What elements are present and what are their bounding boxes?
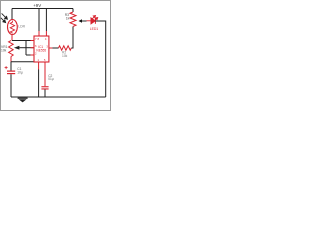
wire pin1 to ground rail xyxy=(38,70,40,98)
resistor R2 xyxy=(59,46,72,50)
LDR LDR1 xyxy=(7,20,17,35)
wire LED to right column xyxy=(95,21,105,97)
capacitor C1 xyxy=(7,71,15,75)
pin 5 stub down (red) xyxy=(44,62,46,86)
wire rail corner down to R3 xyxy=(72,9,74,13)
frame border xyxy=(1,1,111,111)
pin 3 stub right xyxy=(49,47,53,49)
svg-text:NE555: NE555 xyxy=(36,48,46,52)
svg-text:10µ: 10µ xyxy=(17,71,23,75)
wire column to bottom-left pin xyxy=(26,54,34,56)
ground symbol xyxy=(18,98,28,103)
wire VR1 bottom to IC xyxy=(11,61,34,63)
potentiometer VR1 xyxy=(9,41,34,57)
wire down to C1 xyxy=(10,62,12,71)
svg-text:01µ: 01µ xyxy=(48,77,54,81)
capacitor C2 xyxy=(41,86,48,89)
wire VR1 bottom lead xyxy=(10,57,12,63)
LDR light arrows xyxy=(1,13,8,22)
pin 1 stub down xyxy=(38,62,40,70)
wire LDR top lead xyxy=(11,9,13,21)
resistor R3 xyxy=(70,12,76,27)
svg-text:LED1: LED1 xyxy=(90,27,99,31)
wire ground rail xyxy=(11,96,106,98)
wire R2 to R3 column xyxy=(71,27,73,49)
LED LED1 diode xyxy=(91,16,98,24)
wire pin8 to rail xyxy=(38,9,40,32)
wire C2 to rail xyxy=(44,90,46,98)
svg-text:+9V: +9V xyxy=(33,3,41,8)
wire +9V rail xyxy=(12,8,73,10)
wire pin4 to rail xyxy=(45,9,47,32)
wire LDR bottom lead (red) xyxy=(11,34,13,40)
svg-text:10k: 10k xyxy=(1,49,7,53)
svg-text:1k: 1k xyxy=(66,16,70,20)
wire junction to pin (top-left) xyxy=(12,40,34,42)
op-amp IC1 NE555 box xyxy=(34,36,49,62)
C1 plus sign xyxy=(5,66,8,69)
VR1 wiper arrow xyxy=(14,46,20,50)
svg-text:LDR: LDR xyxy=(18,25,25,29)
wire C1 to ground rail xyxy=(10,74,12,97)
svg-text:10k: 10k xyxy=(62,54,68,58)
wire pin3 to R2 xyxy=(53,47,59,49)
wire junction column x=26 xyxy=(25,41,27,56)
IC left pin stubs (red) xyxy=(31,41,35,56)
LED LED1 arrow xyxy=(79,19,91,23)
